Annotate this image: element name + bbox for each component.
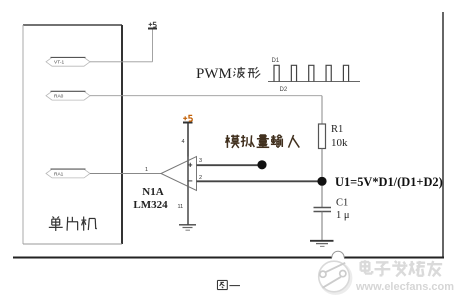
svg-text:3: 3 [199, 158, 202, 164]
svg-text:D1: D1 [272, 58, 280, 64]
svg-text:−: − [188, 176, 193, 185]
svg-text:C1: C1 [336, 198, 348, 209]
svg-text:RA0: RA0 [54, 94, 64, 100]
svg-text:VT-1: VT-1 [54, 60, 64, 66]
svg-text:4: 4 [182, 139, 185, 145]
svg-text:D2: D2 [280, 87, 288, 93]
svg-text:LM324: LM324 [133, 199, 168, 211]
svg-text:RA1: RA1 [54, 171, 64, 177]
svg-text:11: 11 [178, 204, 184, 210]
svg-text:R1: R1 [331, 124, 343, 135]
svg-text:2: 2 [199, 175, 202, 181]
svg-text:www.elecfans.com: www.elecfans.com [355, 281, 454, 293]
svg-text:10k: 10k [331, 137, 348, 149]
svg-text:N1A: N1A [142, 186, 163, 198]
svg-text:1: 1 [145, 167, 148, 173]
svg-text:PWM: PWM [196, 66, 232, 82]
svg-text:+: + [188, 160, 193, 169]
svg-text:1 μ: 1 μ [336, 210, 350, 221]
svg-text:U1=5V*D1/(D1+D2): U1=5V*D1/(D1+D2) [335, 175, 443, 189]
